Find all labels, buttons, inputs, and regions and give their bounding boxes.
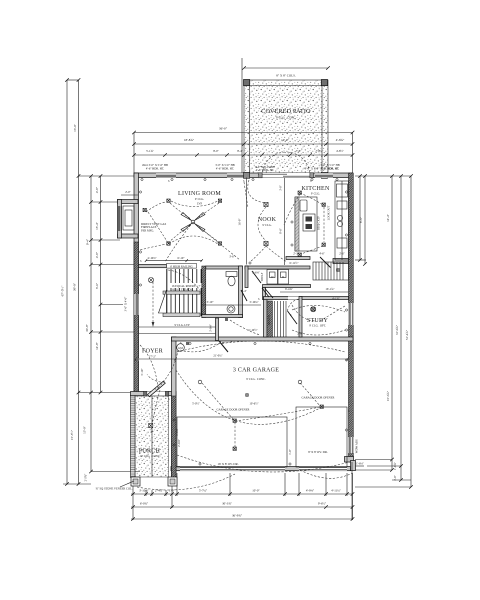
bottom-left dashed sweep (137, 474, 235, 490)
svg-text:6'-4¾": 6'-4¾" (285, 287, 293, 291)
door: front entry opening (146, 392, 166, 396)
svg-text:1'-0": 1'-0" (169, 489, 176, 493)
svg-text:5'-6⅜": 5'-6⅜" (252, 271, 260, 275)
top extension verticals (133, 133, 135, 174)
svg-text:4'-8½": 4'-8½" (336, 149, 344, 153)
garage right wall window (349, 437, 354, 453)
svg-text:*7'-2": *7'-2" (149, 355, 156, 359)
svg-text:PER MFG.: PER MFG. (141, 228, 154, 232)
svg-text:3'-0": 3'-0" (393, 475, 397, 481)
outlets along walls (139, 178, 347, 465)
svg-text:4'-10⅜": 4'-10⅜" (147, 256, 156, 260)
wiring nook/kitchen (248, 180, 266, 203)
wall: house front / porch head wall (131, 392, 177, 396)
wall: porch right / garage left (172, 337, 177, 478)
svg-text:9' CLG. OPT.: 9' CLG. OPT. (309, 324, 326, 328)
dim line: left column outer 67'-5.5" (66, 80, 68, 485)
svg-text:2'-3": 2'-3" (293, 252, 299, 256)
stair winder (159, 290, 167, 313)
svg-text:LOOK OUT: LOOK OUT (327, 205, 331, 220)
wiring foyer (140, 345, 158, 388)
svg-text:16'-0": 16'-0" (238, 219, 242, 226)
svg-text:14'-4": 14'-4" (386, 213, 390, 221)
covered patio slab (244, 80, 328, 176)
svg-text:36'-0": 36'-0" (219, 127, 228, 131)
mud hall wall (263, 288, 266, 300)
top dim line 3 (134, 154, 353, 156)
door leaf nook hall (252, 271, 261, 283)
fridge (337, 184, 348, 197)
svg-text:67'-5½": 67'-5½" (61, 285, 65, 296)
svg-text:W: W (271, 275, 274, 279)
svg-text:18'-8¾": 18'-8¾" (184, 138, 195, 142)
study ceiling light (311, 307, 316, 312)
bottom dim line 2 (131, 506, 353, 508)
svg-text:8" X 8" COLS.: 8" X 8" COLS. (276, 74, 296, 78)
svg-text:30'-3¾": 30'-3¾" (222, 502, 233, 506)
svg-text:14'-8": 14'-8" (95, 341, 99, 349)
can lights nook (264, 202, 268, 245)
stone veneer leader (120, 481, 134, 487)
stair left stringer (166, 269, 168, 316)
svg-text:4'-6": 4'-6" (319, 252, 325, 256)
fireplace box (123, 206, 134, 230)
svg-text:LVP: LVP (197, 202, 203, 206)
wall: garage bottom exterior (171, 467, 351, 471)
stair arc (168, 270, 200, 290)
wall: porch left (131, 396, 136, 478)
toilet (226, 272, 237, 277)
bottom extension verticals (132, 486, 134, 520)
wall: left exterior (134, 173, 139, 395)
bottom dim line 3 (131, 518, 353, 520)
patio column top-right (321, 80, 327, 86)
svg-text:BENCH: BENCH (267, 315, 271, 325)
wiring garage big loop (177, 341, 345, 352)
top dim line 2 (134, 143, 353, 145)
svg-text:2'-6": 2'-6" (339, 252, 345, 256)
pantry door (320, 257, 331, 268)
dimension tick marks (65, 66, 413, 521)
svg-text:COVERED PATIO: COVERED PATIO (261, 109, 311, 115)
svg-text:1'-6⅛": 1'-6⅛" (356, 462, 364, 466)
svg-text:4'-9⅜": 4'-9⅜" (306, 489, 315, 493)
svg-text:2'-8": 2'-8" (297, 332, 303, 336)
svg-text:10' CLG. CONC.: 10' CLG. CONC. (140, 454, 161, 458)
svg-text:GARAGE DOOR OPENER: GARAGE DOOR OPENER (302, 396, 335, 400)
wall: living room south / stair rail line (139, 265, 167, 268)
study west wall (299, 297, 302, 338)
dim line: left column 2nd (78, 80, 80, 485)
stairs treads (171, 269, 201, 316)
svg-text:4'-1¾": 4'-1¾" (332, 297, 340, 301)
hall floor lines (139, 326, 217, 328)
bay dim note (121, 194, 138, 196)
svg-text:2'-4¼": 2'-4¼" (155, 489, 164, 493)
svg-text:6'-0¾": 6'-0¾" (140, 502, 149, 506)
svg-text:13'-0": 13'-0" (83, 425, 87, 433)
svg-text:3'-10¾": 3'-10¾" (139, 489, 150, 493)
kitchen sink circles (337, 215, 342, 220)
oven boxes (337, 238, 347, 248)
svg-text:6'-11½": 6'-11½" (289, 261, 298, 265)
svg-text:9' CLG. CONC.: 9' CLG. CONC. (246, 377, 266, 381)
window: living room north (156, 173, 176, 178)
svg-text:4'-6" HDR. HT.: 4'-6" HDR. HT. (146, 167, 164, 171)
stair mid stringer (163, 291, 200, 294)
svg-text:3'-10": 3'-10" (207, 300, 214, 304)
svg-text:6'-10": 6'-10" (178, 256, 185, 260)
bottom dim line 1 (131, 493, 353, 495)
ceiling fan: living room (181, 213, 205, 232)
svg-text:6' HIGH RAILING: 6' HIGH RAILING (170, 264, 193, 268)
svg-text:3'-0": 3'-0" (154, 387, 160, 391)
svg-text:2'-0": 2'-0" (125, 190, 131, 194)
garage door opening 8ft (299, 467, 347, 471)
garage hall stub wall (216, 318, 219, 341)
lights garage (198, 380, 323, 450)
svg-text:15'-4": 15'-4" (95, 221, 99, 229)
door leaf mud 2 (265, 289, 273, 299)
door: garage to hall (219, 341, 228, 352)
svg-text:1'-0": 1'-0" (288, 449, 292, 455)
svg-text:5'-0½": 5'-0½" (192, 402, 200, 406)
svg-text:9'-4": 9'-4" (86, 238, 90, 245)
dim line: left column inner (100, 176, 102, 393)
svg-text:9' CLG. LVP: 9' CLG. LVP (174, 323, 190, 327)
washer dryer (267, 270, 278, 285)
svg-text:BBQ CKTP: BBQ CKTP (317, 216, 321, 230)
kitchen south wall / pantry (286, 257, 310, 260)
top dim line: 36'-0" (134, 132, 353, 134)
svg-text:16'-1¾": 16'-1¾" (325, 287, 334, 291)
svg-text:9'-6½": 9'-6½" (318, 502, 327, 506)
laundry west wall (245, 266, 248, 288)
stair direction arrow (152, 282, 154, 325)
svg-text:30'-8": 30'-8" (85, 323, 89, 331)
svg-text:9' CLG.: 9' CLG. (262, 223, 271, 227)
window: kitchen north (315, 173, 333, 178)
svg-text:5'-1¾": 5'-1¾" (146, 149, 154, 153)
svg-text:15'-5½": 15'-5½" (70, 429, 74, 440)
porch column bottom-left (131, 477, 140, 486)
top dim line: 8x8 cols (244, 67, 328, 69)
svg-text:3'-0" X 4'-0": 3'-0" X 4'-0" (124, 297, 128, 312)
patio wall columns (244, 172, 250, 178)
svg-text:3'-0": 3'-0" (279, 185, 283, 191)
garage ceiling fixture (245, 393, 248, 396)
svg-text:3'-8⅝": 3'-8⅝" (175, 428, 179, 436)
svg-text:3'-0⅜": 3'-0⅜" (209, 324, 213, 332)
svg-text:10'-6½": 10'-6½" (249, 402, 258, 406)
powder room walls (206, 266, 243, 269)
closet fixture (336, 268, 339, 271)
study north wall (264, 297, 349, 300)
bay window (118, 206, 121, 231)
bench room west wall (264, 297, 268, 337)
patio edge bands (249, 80, 251, 176)
gm meter (177, 344, 185, 352)
dim line: left column 3rd (90, 176, 92, 472)
front door leaf (148, 381, 166, 397)
patio door swing arcs (262, 152, 286, 176)
kitchen right counter (335, 181, 349, 260)
svg-text:2'-5¾": 2'-5¾" (84, 474, 88, 482)
foyer/garage dim line (136, 358, 348, 360)
svg-text:2'-4": 2'-4" (241, 289, 247, 293)
garage bottom-right corner block (345, 457, 354, 463)
svg-text:10'-0": 10'-0" (252, 489, 260, 493)
svg-text:3 CAR GARAGE: 3 CAR GARAGE (233, 368, 279, 374)
svg-text:SHELF: SHELF (260, 272, 264, 281)
door: powder (241, 290, 247, 301)
svg-text:2'-0⅜": 2'-0⅜" (177, 439, 181, 447)
svg-text:51'-4¾": 51'-4¾" (405, 329, 409, 340)
extra wiring arcs (148, 182, 345, 447)
study door leaf (288, 311, 298, 324)
kitchen island (295, 197, 317, 251)
svg-text:3'-10¼": 3'-10¼" (249, 300, 258, 304)
svg-text:8'-6": 8'-6" (359, 216, 363, 223)
svg-text:4'-8¾": 4'-8¾" (336, 138, 345, 142)
svg-text:5'-10": 5'-10" (140, 369, 144, 376)
stair landing light (148, 277, 153, 282)
svg-text:WDW ABV.: WDW ABV. (355, 438, 359, 453)
svg-text:AT 10" TREADS: AT 10" TREADS (172, 288, 193, 292)
svg-text:9' CLG.: 9' CLG. (195, 197, 204, 201)
svg-text:4'-8": 4'-8" (95, 186, 99, 193)
svg-text:36'-0": 36'-0" (73, 282, 77, 291)
svg-text:8'-6": 8'-6" (279, 228, 283, 234)
stairwell wall (hatched strip) (202, 266, 206, 318)
svg-text:9' CLG.: 9' CLG. (311, 192, 320, 196)
can lights kitchen (298, 191, 325, 256)
closet rod lines (275, 301, 287, 337)
svg-text:4'-6" HDR. HT.: 4'-6" HDR. HT. (256, 168, 274, 172)
svg-text:8'-0": 8'-0" (213, 149, 219, 153)
laundry walls (245, 266, 310, 269)
stair top rail label box (167, 264, 197, 269)
wiring dashed arcs living room (146, 202, 166, 212)
svg-text:36'-9¾": 36'-9¾" (232, 514, 243, 518)
bench strip (267, 301, 273, 337)
svg-text:¾" SQ STONE VENEER COL.: ¾" SQ STONE VENEER COL. (95, 487, 132, 491)
svg-text:4'-8": 4'-8" (95, 251, 99, 258)
svg-text:6'-0": 6'-0" (95, 282, 99, 289)
study closet (313, 262, 349, 280)
switch marks (140, 179, 350, 413)
range (303, 214, 315, 231)
garage door opening 16ft (180, 467, 285, 471)
svg-text:8' X 8' OV. DR.: 8' X 8' OV. DR. (308, 450, 328, 454)
porch slab (135, 396, 169, 477)
window: left stair window (over hatch) (134, 294, 139, 315)
wall: garage north (172, 337, 354, 341)
svg-text:D: D (282, 275, 284, 279)
powder sink (227, 305, 235, 313)
svg-text:8'-4": 8'-4" (237, 149, 243, 153)
island sink (300, 200, 307, 211)
svg-text:16' X 8' OV. DR.: 16' X 8' OV. DR. (218, 462, 239, 466)
porch light (149, 424, 153, 428)
svg-text:4'-6" HDR. HT.: 4'-6" HDR. HT. (216, 167, 234, 171)
can lights living room (143, 199, 222, 245)
svg-text:4'-11¼": 4'-11¼" (331, 489, 341, 493)
svg-text:4'-6" HDR. HT.: 4'-6" HDR. HT. (321, 167, 339, 171)
svg-text:3'-6": 3'-6" (229, 255, 235, 259)
svg-text:5'-7¼": 5'-7¼" (199, 489, 208, 493)
window: north 2 (227, 173, 249, 178)
study east window (349, 303, 354, 325)
svg-text:31'-0¾": 31'-0¾" (395, 324, 399, 335)
garage door opener rects (177, 417, 287, 467)
wall: right exterior (hatched) (349, 173, 354, 457)
svg-text:21'-0¼": 21'-0¼" (213, 354, 222, 358)
svg-text:16'-6¾": 16'-6¾" (386, 390, 390, 401)
fireplace bay walls (118, 200, 139, 204)
patio column top-left (244, 80, 250, 86)
porch center line (151, 396, 153, 477)
door: patio sliding door (258, 173, 312, 178)
stair note (168, 283, 204, 288)
porch column bottom-right (168, 477, 177, 486)
right extension lines (355, 175, 411, 177)
wiring study (292, 305, 345, 312)
nook boundary lines (246, 178, 248, 265)
stair bottom rail band (163, 313, 200, 317)
svg-text:GM: GM (178, 346, 183, 350)
smoke detectors (136, 358, 139, 361)
door: mud (262, 288, 269, 297)
dim line above stairs (146, 260, 202, 262)
svg-text:GARAGE DOOR OPENER: GARAGE DOOR OPENER (217, 408, 250, 412)
window: left stair window (134, 294, 139, 315)
left extension lines (67, 79, 79, 81)
svg-text:9' CLG. CONC.: 9' CLG. CONC. (276, 116, 296, 120)
svg-text:16'-0": 16'-0" (73, 123, 77, 131)
wall: top exterior (134, 173, 353, 178)
right column dim lines (359, 176, 361, 260)
svg-text:5'-10½": 5'-10½" (248, 328, 257, 332)
